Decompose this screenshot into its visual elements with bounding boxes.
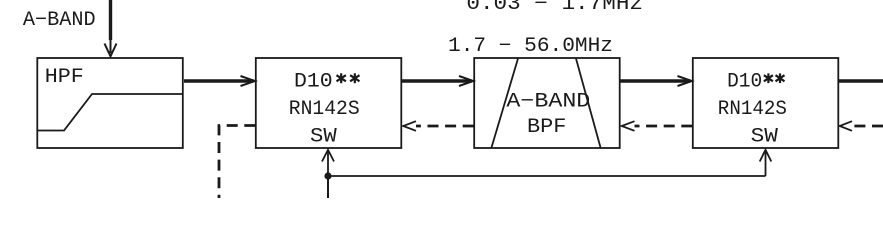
HPF response curve xyxy=(38,94,182,131)
svg-text:1.7 − 56.0MHz: 1.7 − 56.0MHz xyxy=(448,35,613,58)
wire BPF to SW2 (thick arrow) xyxy=(620,76,692,86)
svg-text:RN142S: RN142S xyxy=(718,98,787,121)
HPF block xyxy=(37,58,183,148)
wire vertical below junction xyxy=(327,176,329,198)
junction dot xyxy=(324,172,331,179)
svg-text:HPF: HPF xyxy=(45,66,84,89)
svg-text:BPF: BPF xyxy=(527,116,566,139)
wire HPF to SW1 (thick arrow) xyxy=(184,76,255,86)
BPF block A-BAND BPF xyxy=(474,58,620,148)
svg-text:D10: D10 xyxy=(294,71,333,94)
svg-text:0.03 − 1.7MHz: 0.03 − 1.7MHz xyxy=(466,0,643,16)
wire up into SW2 (arrow up) xyxy=(765,152,767,176)
control wire dashed from SW1 left, down to bottom edge xyxy=(219,126,255,199)
asterisk pair on SW2 xyxy=(764,73,785,83)
wire SW2 output (thick) xyxy=(839,79,883,82)
svg-text:SW: SW xyxy=(310,125,337,148)
BPF symbol left diagonal xyxy=(492,59,519,148)
asterisk pair on SW1 xyxy=(337,73,360,83)
svg-text:A−BAND: A−BAND xyxy=(23,9,96,32)
wire A-BAND input (thick vertical) xyxy=(105,0,117,56)
wire junction to SW1 (arrow up) xyxy=(327,152,329,176)
control wire dashed BPF to SW1 xyxy=(403,121,474,131)
control wire from bottom into SW1 and SW2 xyxy=(322,150,771,198)
control wire dashed from right edge into SW2 xyxy=(840,121,883,131)
svg-text:A−BAND: A−BAND xyxy=(506,91,590,114)
control wire dashed SW2 to BPF xyxy=(622,121,693,131)
BPF symbol right diagonal xyxy=(576,59,601,148)
svg-text:D10: D10 xyxy=(727,71,762,94)
switch SW2 block D10** RN142S SW xyxy=(693,58,839,148)
wire SW1 to BPF (thick arrow) xyxy=(402,76,473,86)
svg-text:SW: SW xyxy=(751,126,778,149)
switch SW1 block D10** RN142S SW xyxy=(256,58,401,148)
wire junction horizontal xyxy=(328,175,766,177)
svg-text:RN142S: RN142S xyxy=(289,98,360,121)
